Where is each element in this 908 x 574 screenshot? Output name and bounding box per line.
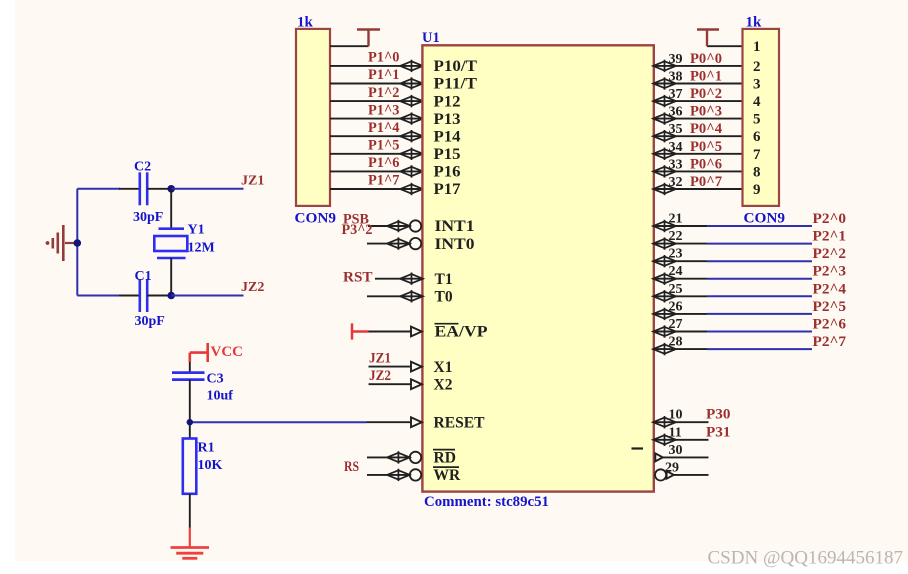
wire pin 29 xyxy=(674,474,709,476)
svg-text:P14: P14 xyxy=(434,128,461,145)
pin symbol P06 (diamond) xyxy=(653,167,676,176)
svg-text:P1^7: P1^7 xyxy=(368,173,400,189)
svg-text:CON9: CON9 xyxy=(295,211,337,227)
svg-text:P31: P31 xyxy=(706,424,731,440)
pin symbol P21 (diamond) xyxy=(653,239,676,248)
wire P31 xyxy=(655,439,709,441)
wire P0^3 (U1 to right connector) xyxy=(655,118,743,120)
junction JZ1 xyxy=(167,185,175,193)
svg-text:P2^0: P2^0 xyxy=(813,211,847,227)
wire X1 xyxy=(369,366,412,368)
svg-text:JZ1: JZ1 xyxy=(241,174,264,189)
svg-text:1k: 1k xyxy=(746,15,763,31)
pin symbol P12 (bidirectional diamond) xyxy=(400,97,423,106)
wire: left connector pin 1 to power bar xyxy=(330,45,369,47)
svg-text:P2^3: P2^3 xyxy=(813,264,847,280)
wire RD xyxy=(367,456,409,458)
wire ground stub (red) xyxy=(189,528,191,548)
svg-text:P0^7: P0^7 xyxy=(690,174,722,190)
svg-text:P0^6: P0^6 xyxy=(690,156,722,172)
svg-text:25: 25 xyxy=(669,282,683,297)
wire P0^4 (U1 to right connector) xyxy=(655,135,743,137)
svg-text:P16: P16 xyxy=(434,164,461,181)
svg-text:12M: 12M xyxy=(188,241,215,256)
svg-text:22: 22 xyxy=(669,229,683,244)
pin symbol INT0 (diamond + bubble) xyxy=(387,239,410,248)
wire P1^3 (left connector to U1) xyxy=(330,118,421,120)
pin symbol P26 (diamond) xyxy=(653,327,676,336)
svg-text:1k: 1k xyxy=(297,15,314,31)
svg-text:X2: X2 xyxy=(434,376,453,393)
pin symbol P27 (diamond) xyxy=(653,345,676,354)
svg-text:29: 29 xyxy=(665,460,679,475)
svg-text:6: 6 xyxy=(753,129,761,145)
wire EA/VP xyxy=(369,331,412,333)
wire JZ1 net (left segment) xyxy=(77,188,120,190)
svg-text:P0^0: P0^0 xyxy=(690,51,722,67)
svg-text:1: 1 xyxy=(753,39,761,55)
wire P2^3 pin lead xyxy=(655,278,707,280)
pin symbol P05 (diamond) xyxy=(653,149,676,158)
wire P2^5 pin lead xyxy=(655,313,707,315)
svg-text:T0: T0 xyxy=(435,289,453,306)
wire C2 left lead xyxy=(119,188,139,190)
svg-text:32: 32 xyxy=(669,175,683,190)
crystal Y1 xyxy=(154,229,187,258)
svg-text:P1^1: P1^1 xyxy=(368,67,400,83)
wire P1^1 (left connector to U1) xyxy=(330,83,421,85)
wire P0^7 (U1 to right connector) xyxy=(655,188,743,190)
wire JZ1 net (to label) xyxy=(171,188,243,190)
svg-text:RST: RST xyxy=(343,270,373,286)
svg-text:P2^7: P2^7 xyxy=(813,334,847,350)
wire P0^6 (U1 to right connector) xyxy=(655,170,743,172)
svg-text:WR: WR xyxy=(434,467,462,484)
svg-text:2: 2 xyxy=(753,59,761,75)
wire JZ2 net (to label) xyxy=(171,295,243,297)
pin symbol pin11 (diamond) xyxy=(653,435,676,444)
svg-text:P1^0: P1^0 xyxy=(368,50,400,66)
capacitor C2 xyxy=(140,172,147,205)
wire C1 left lead xyxy=(119,295,139,297)
wire P1^6 (left connector to U1) xyxy=(330,170,421,172)
svg-text:C2: C2 xyxy=(134,160,151,175)
wire P2^7 pin lead xyxy=(655,348,707,350)
junction RESET node xyxy=(187,419,193,425)
svg-text:23: 23 xyxy=(669,247,683,262)
pin symbol pin29 (bubble + triangle) xyxy=(655,469,666,480)
wire: right connector pin 1 to power bar xyxy=(707,45,743,47)
wire JZ2 net (left segment) xyxy=(77,295,120,297)
svg-text:7: 7 xyxy=(753,147,761,163)
svg-text:P0^3: P0^3 xyxy=(690,104,722,120)
svg-text:VCC: VCC xyxy=(211,344,244,360)
svg-text:21: 21 xyxy=(669,212,683,227)
wire P0^5 (U1 to right connector) xyxy=(655,153,743,155)
wire crystal bottom lead xyxy=(170,258,172,296)
pin symbol P15 (bidirectional diamond) xyxy=(400,149,423,158)
ground symbol (red earth) xyxy=(171,548,210,559)
svg-text:26: 26 xyxy=(669,299,683,314)
svg-text:T1: T1 xyxy=(435,271,453,288)
VCC power symbol xyxy=(190,343,208,362)
wire INT1 xyxy=(368,225,409,227)
svg-text:24: 24 xyxy=(669,264,683,279)
pin symbol WR (diamond + bubble) xyxy=(387,470,410,479)
wire P2^6 pin lead xyxy=(655,331,707,333)
pin symbol T1 (diamond) xyxy=(400,274,423,283)
svg-text:R1: R1 xyxy=(198,441,215,456)
svg-text:33: 33 xyxy=(669,157,683,172)
pin symbol P03 (diamond) xyxy=(653,114,676,123)
pin symbol P22 (diamond) xyxy=(653,257,676,266)
pin symbol X1 (input triangle) xyxy=(411,362,422,372)
pin symbol P07 (diamond) xyxy=(653,184,676,193)
wire P2^3 (blue net) xyxy=(707,278,812,280)
ground symbol (maroon, pointing left) xyxy=(46,225,64,261)
wire P30 xyxy=(655,421,709,423)
svg-text:35: 35 xyxy=(669,122,683,137)
pin symbol RESET (input triangle) xyxy=(411,417,422,427)
pin symbol P16 (bidirectional diamond) xyxy=(400,167,423,176)
pin symbol P14 (bidirectional diamond) xyxy=(400,132,423,141)
pin symbol P00 (diamond) xyxy=(653,61,676,70)
wire P2^4 pin lead xyxy=(655,295,707,297)
svg-text:P1^3: P1^3 xyxy=(368,102,400,118)
svg-text:10K: 10K xyxy=(198,458,223,473)
pin symbol INT1 (diamond + bubble) xyxy=(387,221,410,230)
resistor R1 xyxy=(183,439,197,494)
svg-text:P10/T: P10/T xyxy=(434,58,478,75)
svg-text:RS: RS xyxy=(344,459,359,475)
svg-text:P1^4: P1^4 xyxy=(368,120,400,136)
svg-text:P0^2: P0^2 xyxy=(690,86,722,102)
wire P2^2 pin lead xyxy=(655,260,707,262)
svg-text:P13: P13 xyxy=(434,111,461,128)
svg-text:5: 5 xyxy=(753,112,761,128)
pin symbol P20 (diamond) xyxy=(653,221,676,230)
wire P0^1 (U1 to right connector) xyxy=(655,83,743,85)
wire P0^2 (U1 to right connector) xyxy=(655,100,743,102)
svg-text:39: 39 xyxy=(669,52,683,67)
wire C3 to R1 xyxy=(189,380,191,439)
svg-text:11: 11 xyxy=(669,425,682,440)
pin symbol P02 (diamond) xyxy=(653,97,676,106)
wire X2 xyxy=(369,383,412,385)
pin symbol P10 (bidirectional diamond) xyxy=(400,61,423,70)
wire R1 to ground xyxy=(189,494,191,528)
junction JZ2 xyxy=(167,292,175,300)
connector CON9 (right, 1k) body xyxy=(743,29,780,206)
svg-text:RD: RD xyxy=(434,450,456,467)
svg-text:37: 37 xyxy=(669,87,683,102)
svg-text:JZ2: JZ2 xyxy=(241,280,264,295)
svg-text:30pF: 30pF xyxy=(133,210,163,225)
svg-text:P2^1: P2^1 xyxy=(813,229,847,245)
svg-text:27: 27 xyxy=(669,317,683,332)
svg-text:Y1: Y1 xyxy=(188,223,205,238)
wire P2^5 (blue net) xyxy=(707,313,812,315)
svg-text:8: 8 xyxy=(753,164,761,180)
svg-text:P2^2: P2^2 xyxy=(813,246,847,262)
pin symbol pin30 (output triangle) xyxy=(655,453,663,461)
svg-text:P12: P12 xyxy=(434,93,461,110)
pin symbol P17 (bidirectional diamond) xyxy=(400,184,423,193)
wire INT0 xyxy=(367,243,409,245)
svg-text:38: 38 xyxy=(669,70,683,85)
svg-text:36: 36 xyxy=(669,105,683,120)
svg-text:9: 9 xyxy=(753,182,761,198)
wire P2^1 pin lead xyxy=(655,243,707,245)
svg-text:P11/T: P11/T xyxy=(434,76,478,93)
power bar symbol (right, VCC rail) xyxy=(697,30,719,47)
svg-text:34: 34 xyxy=(669,140,683,155)
svg-text:P1^5: P1^5 xyxy=(368,138,400,154)
pin symbol T0 (diamond) xyxy=(400,292,423,301)
wire RESET pin lead xyxy=(367,421,412,423)
power bar symbol (left, VCC rail) xyxy=(357,30,380,47)
svg-text:INT0: INT0 xyxy=(435,236,475,253)
svg-text:P1^2: P1^2 xyxy=(368,85,400,101)
svg-text:30: 30 xyxy=(669,443,683,458)
pin symbol EA/VP (input triangle) xyxy=(411,327,422,337)
svg-text:RESET: RESET xyxy=(434,414,486,431)
svg-text:P30: P30 xyxy=(706,407,731,423)
wire P1^7 (left connector to U1) xyxy=(330,188,421,190)
pin symbol P13 (bidirectional diamond) xyxy=(400,114,423,123)
wire crystal top lead xyxy=(170,189,172,229)
svg-text:28: 28 xyxy=(669,335,683,350)
pin symbol P23 (diamond) xyxy=(653,274,676,283)
svg-text:INT1: INT1 xyxy=(435,218,475,235)
svg-text:C3: C3 xyxy=(207,372,224,387)
power bar symbol at EA/VP xyxy=(352,323,369,339)
svg-text:P2^6: P2^6 xyxy=(813,317,847,333)
wire T0 xyxy=(367,295,421,297)
wire P2^0 pin lead xyxy=(655,225,707,227)
svg-text:U1: U1 xyxy=(422,30,440,46)
svg-text:P0^5: P0^5 xyxy=(690,139,722,155)
pin symbol pin10 (diamond) xyxy=(653,418,676,427)
wire pin 30 xyxy=(663,456,709,458)
junction on left bus xyxy=(74,239,82,247)
svg-text:CSDN @QQ1694456187: CSDN @QQ1694456187 xyxy=(708,548,904,569)
capacitor C1 xyxy=(140,279,147,312)
svg-text:P0^4: P0^4 xyxy=(690,121,722,137)
svg-text:P0^1: P0^1 xyxy=(690,69,722,85)
wire C1 right lead xyxy=(147,295,171,297)
svg-text:CON9: CON9 xyxy=(744,211,786,227)
svg-text:JZ1: JZ1 xyxy=(369,351,391,367)
wire P2^0 (blue net) xyxy=(707,225,812,227)
wire P1^0 (left connector to U1) xyxy=(330,65,421,67)
wire P2^4 (blue net) xyxy=(707,295,812,297)
wire P2^2 (blue net) xyxy=(707,260,812,262)
wire: left vertical bus of crystal circuit xyxy=(76,189,78,296)
svg-text:4: 4 xyxy=(753,94,761,110)
svg-text:P2^5: P2^5 xyxy=(813,299,847,315)
svg-text:P3^2: P3^2 xyxy=(342,222,373,238)
wire P1^4 (left connector to U1) xyxy=(330,135,421,137)
svg-text:C1: C1 xyxy=(135,269,152,284)
IC U1 stc89c51 body xyxy=(422,45,653,491)
svg-text:EA/VP: EA/VP xyxy=(435,324,489,341)
svg-text:JZ2: JZ2 xyxy=(369,368,391,384)
pin symbol P24 (diamond) xyxy=(653,292,676,301)
svg-text:X1: X1 xyxy=(434,359,453,376)
pin symbol X2 (input triangle) xyxy=(411,379,422,389)
svg-text:P17: P17 xyxy=(434,181,461,198)
svg-text:10: 10 xyxy=(669,408,683,423)
wire T1 xyxy=(375,278,421,280)
wire C2 right lead xyxy=(147,188,171,190)
pin symbol RD (diamond + bubble) xyxy=(387,453,410,462)
wire P1^2 (left connector to U1) xyxy=(330,100,421,102)
svg-text:10uf: 10uf xyxy=(207,389,234,404)
wire P2^1 (blue net) xyxy=(707,243,812,245)
pin symbol P01 (diamond) xyxy=(653,79,676,88)
capacitor C3 xyxy=(172,373,205,380)
dash marker inside U1 right edge xyxy=(632,447,644,449)
wire: stub to ground symbol xyxy=(65,242,77,244)
svg-text:3: 3 xyxy=(753,77,761,93)
wire P2^7 (blue net) xyxy=(707,348,812,350)
wire P1^5 (left connector to U1) xyxy=(330,153,421,155)
wire RESET net (blue segment from RC divider) xyxy=(190,421,367,423)
svg-text:P2^4: P2^4 xyxy=(813,281,847,297)
svg-text:P1^6: P1^6 xyxy=(368,155,400,171)
pin symbol P04 (diamond) xyxy=(653,132,676,141)
svg-text:P15: P15 xyxy=(434,146,461,163)
wire P2^6 (blue net) xyxy=(707,331,812,333)
wire P0^0 (U1 to right connector) xyxy=(655,65,743,67)
wire WR xyxy=(367,474,409,476)
pin symbol P11 (bidirectional diamond) xyxy=(400,79,423,88)
connector CON9 (left, 1k) body xyxy=(296,29,330,206)
pin symbol P25 (diamond) xyxy=(653,309,676,318)
svg-text:Comment: stc89c51: Comment: stc89c51 xyxy=(424,494,549,510)
svg-text:30pF: 30pF xyxy=(135,314,165,329)
wire VCC to C3 xyxy=(189,362,191,372)
